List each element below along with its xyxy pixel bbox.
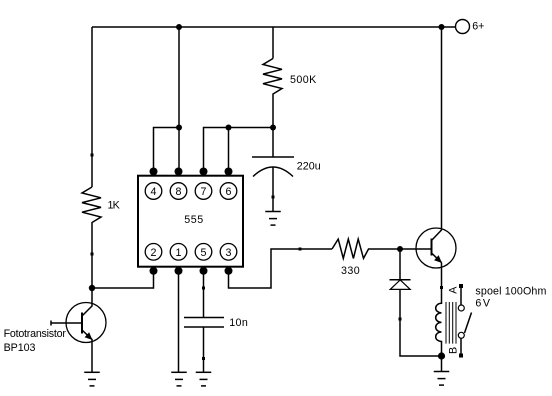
svg-text:4: 4 xyxy=(151,186,157,198)
svg-text:330: 330 xyxy=(341,265,360,277)
svg-text:2: 2 xyxy=(151,247,157,259)
svg-text:6V: 6V xyxy=(475,297,490,309)
svg-text:B: B xyxy=(447,347,459,354)
svg-text:1K: 1K xyxy=(108,200,121,212)
svg-text:7: 7 xyxy=(201,186,207,198)
svg-text:1: 1 xyxy=(176,247,182,259)
svg-text:6: 6 xyxy=(226,186,232,198)
svg-text:A: A xyxy=(447,286,459,294)
svg-text:555: 555 xyxy=(184,214,203,226)
svg-text:Fototransistor: Fototransistor xyxy=(4,328,67,340)
svg-text:6+: 6+ xyxy=(472,21,484,33)
svg-text:8: 8 xyxy=(176,186,182,198)
svg-text:10n: 10n xyxy=(229,317,248,329)
svg-text:3: 3 xyxy=(226,247,232,259)
svg-text:5: 5 xyxy=(201,247,207,259)
svg-text:500K: 500K xyxy=(290,74,317,86)
svg-text:BP103: BP103 xyxy=(4,342,36,354)
svg-text:220u: 220u xyxy=(297,161,321,173)
svg-text:spoel 100Ohm: spoel 100Ohm xyxy=(475,286,546,298)
